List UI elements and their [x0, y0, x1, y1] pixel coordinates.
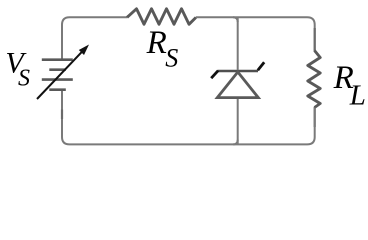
svg-text:S: S [165, 44, 178, 73]
zener diode D1 cathode bar [218, 70, 258, 73]
zener diode D1 right wing [258, 62, 264, 70]
wire: left rail darker overlap tick [61, 110, 63, 120]
svg-text:L: L [349, 80, 366, 112]
resistor R2 zigzag (R_L) [308, 51, 320, 108]
wire: junction fillet at bottom rail [233, 140, 238, 145]
wire: top-left corner and left rail upper segment [62, 17, 127, 59]
zener diode D1 triangle [217, 72, 258, 98]
variable-source arrow through battery [37, 45, 89, 100]
wire: junction fillet at top rail [233, 17, 238, 22]
wire: R_L branch lower stub (darker overlap) [314, 107, 316, 127]
battery V1 plate short [49, 68, 66, 71]
battery V1 plate long lower [42, 78, 73, 81]
battery V1 plate long top [42, 58, 73, 61]
wire: top rail from R_S to top-right corner [196, 17, 315, 50]
battery V1 plate short bottom [49, 88, 66, 91]
zener diode D1 left wing [211, 71, 218, 79]
wire: right rail lower and bottom rail and bottom-left corner [62, 90, 315, 144]
wire: R_L branch upper stub (darker overlap) [314, 28, 316, 51]
resistor R1 zigzag (R_S) [127, 9, 196, 24]
wire: zener branch top vertical [237, 17, 239, 70]
wire: zener branch bottom vertical [237, 98, 239, 145]
svg-text:S: S [18, 65, 30, 91]
svg-text:R: R [146, 25, 167, 61]
